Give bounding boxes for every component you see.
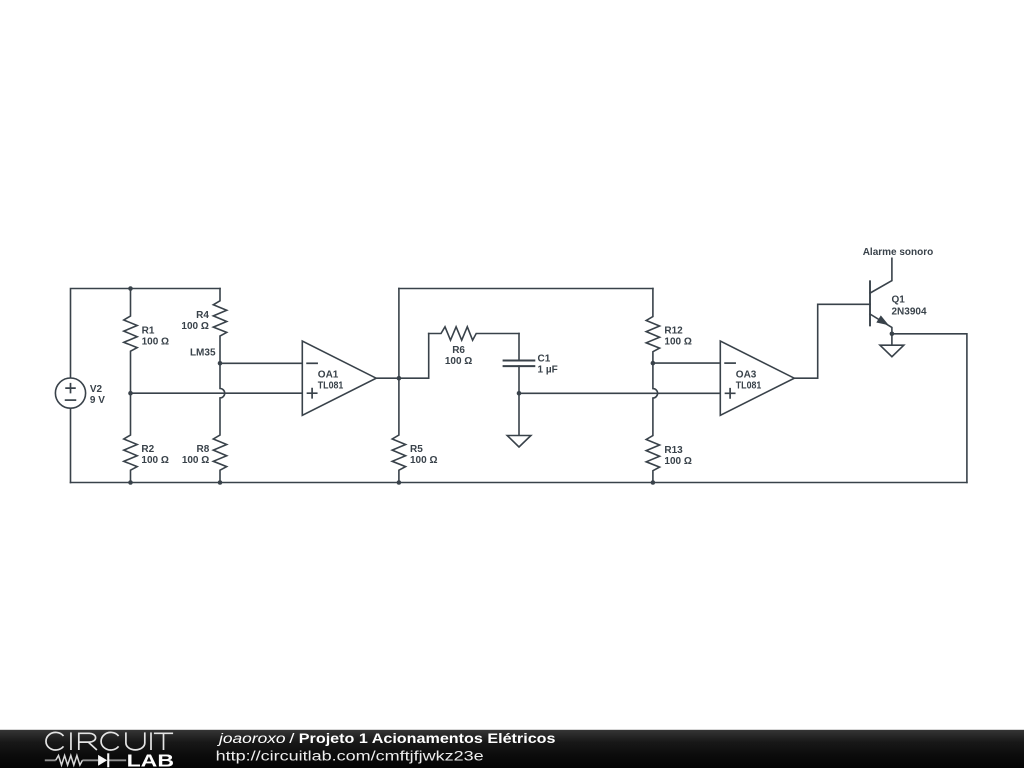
svg-text:2N3904: 2N3904 xyxy=(892,306,927,317)
node dot top rail / R1 xyxy=(128,286,133,291)
svg-text:100 Ω: 100 Ω xyxy=(181,321,208,332)
resistor R5 xyxy=(392,378,405,482)
svg-text:100 Ω: 100 Ω xyxy=(410,455,437,466)
transistor Q1 xyxy=(870,258,892,334)
svg-text:OA1: OA1 xyxy=(318,369,339,380)
logo resistor-diode doodle xyxy=(45,756,126,766)
wire OA1 output xyxy=(376,377,399,379)
svg-text:100 Ω: 100 Ω xyxy=(141,455,168,466)
resistor R12 xyxy=(646,289,659,364)
svg-text:100 Ω: 100 Ω xyxy=(182,455,209,466)
resistor R8 (with wire hop over middle rail) xyxy=(213,363,226,482)
node dot R12/OA3 xyxy=(651,361,656,366)
wire OA3 output to Q1 base xyxy=(794,304,870,378)
ground below Q1 emitter xyxy=(880,334,904,357)
wire R12 node to OA3 inverting input xyxy=(653,362,720,364)
resistor R4 xyxy=(213,289,226,364)
node dot Q1 emitter xyxy=(890,332,895,337)
svg-text:R8: R8 xyxy=(197,444,210,455)
logo CIRCUIT lettering xyxy=(46,732,173,750)
wire middle rail left (R1/R2 node to OA1 non-inverting input) xyxy=(131,392,303,394)
node dot OA1 output xyxy=(397,376,402,381)
svg-text:R6: R6 xyxy=(452,345,465,356)
svg-text:V2: V2 xyxy=(90,384,103,395)
node dot R8 bottom xyxy=(218,480,223,485)
ground below C1 xyxy=(507,393,531,447)
wire OA1 output node to R6 left lead xyxy=(399,334,429,379)
svg-text:100 Ω: 100 Ω xyxy=(142,336,169,347)
resistor R13 (with wire hop over middle rail) xyxy=(646,363,659,482)
node dot R2 bottom xyxy=(128,480,133,485)
wire LM35 node to OA1 inverting input xyxy=(220,362,302,364)
svg-text:9 V: 9 V xyxy=(90,395,105,406)
svg-text:100 Ω: 100 Ω xyxy=(664,456,691,467)
svg-text:C1: C1 xyxy=(538,354,551,365)
wire V2 bottom lead xyxy=(70,408,72,482)
resistor R6 xyxy=(429,327,519,340)
svg-text:Alarme sonoro: Alarme sonoro xyxy=(863,247,934,258)
footer bar xyxy=(0,730,1024,768)
wire OA1 output node up to top rail xyxy=(398,289,400,379)
node dot C1 bottom xyxy=(517,391,522,396)
op-amp OA1 input polarity symbols xyxy=(307,363,317,398)
node dot R1/R2 middle rail xyxy=(128,391,133,396)
op-amp OA3 input polarity symbols xyxy=(725,363,735,398)
svg-text:R1: R1 xyxy=(142,325,155,336)
logo diode symbol xyxy=(98,753,109,767)
svg-text:TL081: TL081 xyxy=(318,380,344,391)
voltage source V2 xyxy=(55,378,85,408)
svg-text:R4: R4 xyxy=(196,310,209,321)
svg-text:100 Ω: 100 Ω xyxy=(445,356,472,367)
wire top rail right (to R12 top) xyxy=(399,288,653,290)
svg-text:R13: R13 xyxy=(664,445,683,456)
capacitor C1 xyxy=(504,334,535,394)
resistor R2 xyxy=(124,393,137,482)
node dot LM35 output xyxy=(218,361,223,366)
svg-text:LAB: LAB xyxy=(127,750,174,768)
svg-text:TL081: TL081 xyxy=(736,380,762,391)
svg-text:R12: R12 xyxy=(664,325,683,336)
svg-text:R5: R5 xyxy=(410,444,423,455)
svg-text:100 Ω: 100 Ω xyxy=(664,336,691,347)
wire Q1 emitter node to right rail and bottom rail xyxy=(892,334,967,483)
node dot R13 bottom xyxy=(651,480,656,485)
wire top-left rail (V2 top to R4 top) xyxy=(71,289,221,379)
svg-text:OA3: OA3 xyxy=(736,369,757,380)
svg-text:LM35: LM35 xyxy=(190,348,216,359)
node dot R5 bottom xyxy=(397,480,402,485)
wire bottom rail xyxy=(71,482,967,484)
svg-text:joaoroxo/Projeto 1 Acionamento: joaoroxo/Projeto 1 Acionamentos Elétrico… xyxy=(216,731,555,746)
svg-text:R2: R2 xyxy=(141,444,154,455)
resistor R1 xyxy=(124,289,137,394)
op-amp OA1 triangle xyxy=(302,341,376,415)
svg-text:Q1: Q1 xyxy=(892,295,906,306)
wire middle rail right (C1 node to OA3 non-inverting input) xyxy=(519,392,720,394)
op-amp OA3 triangle xyxy=(720,341,794,415)
svg-text:http://circuitlab.com/cmftjfjw: http://circuitlab.com/cmftjfjwkz23e xyxy=(216,748,484,763)
svg-text:1 µF: 1 µF xyxy=(538,365,558,376)
